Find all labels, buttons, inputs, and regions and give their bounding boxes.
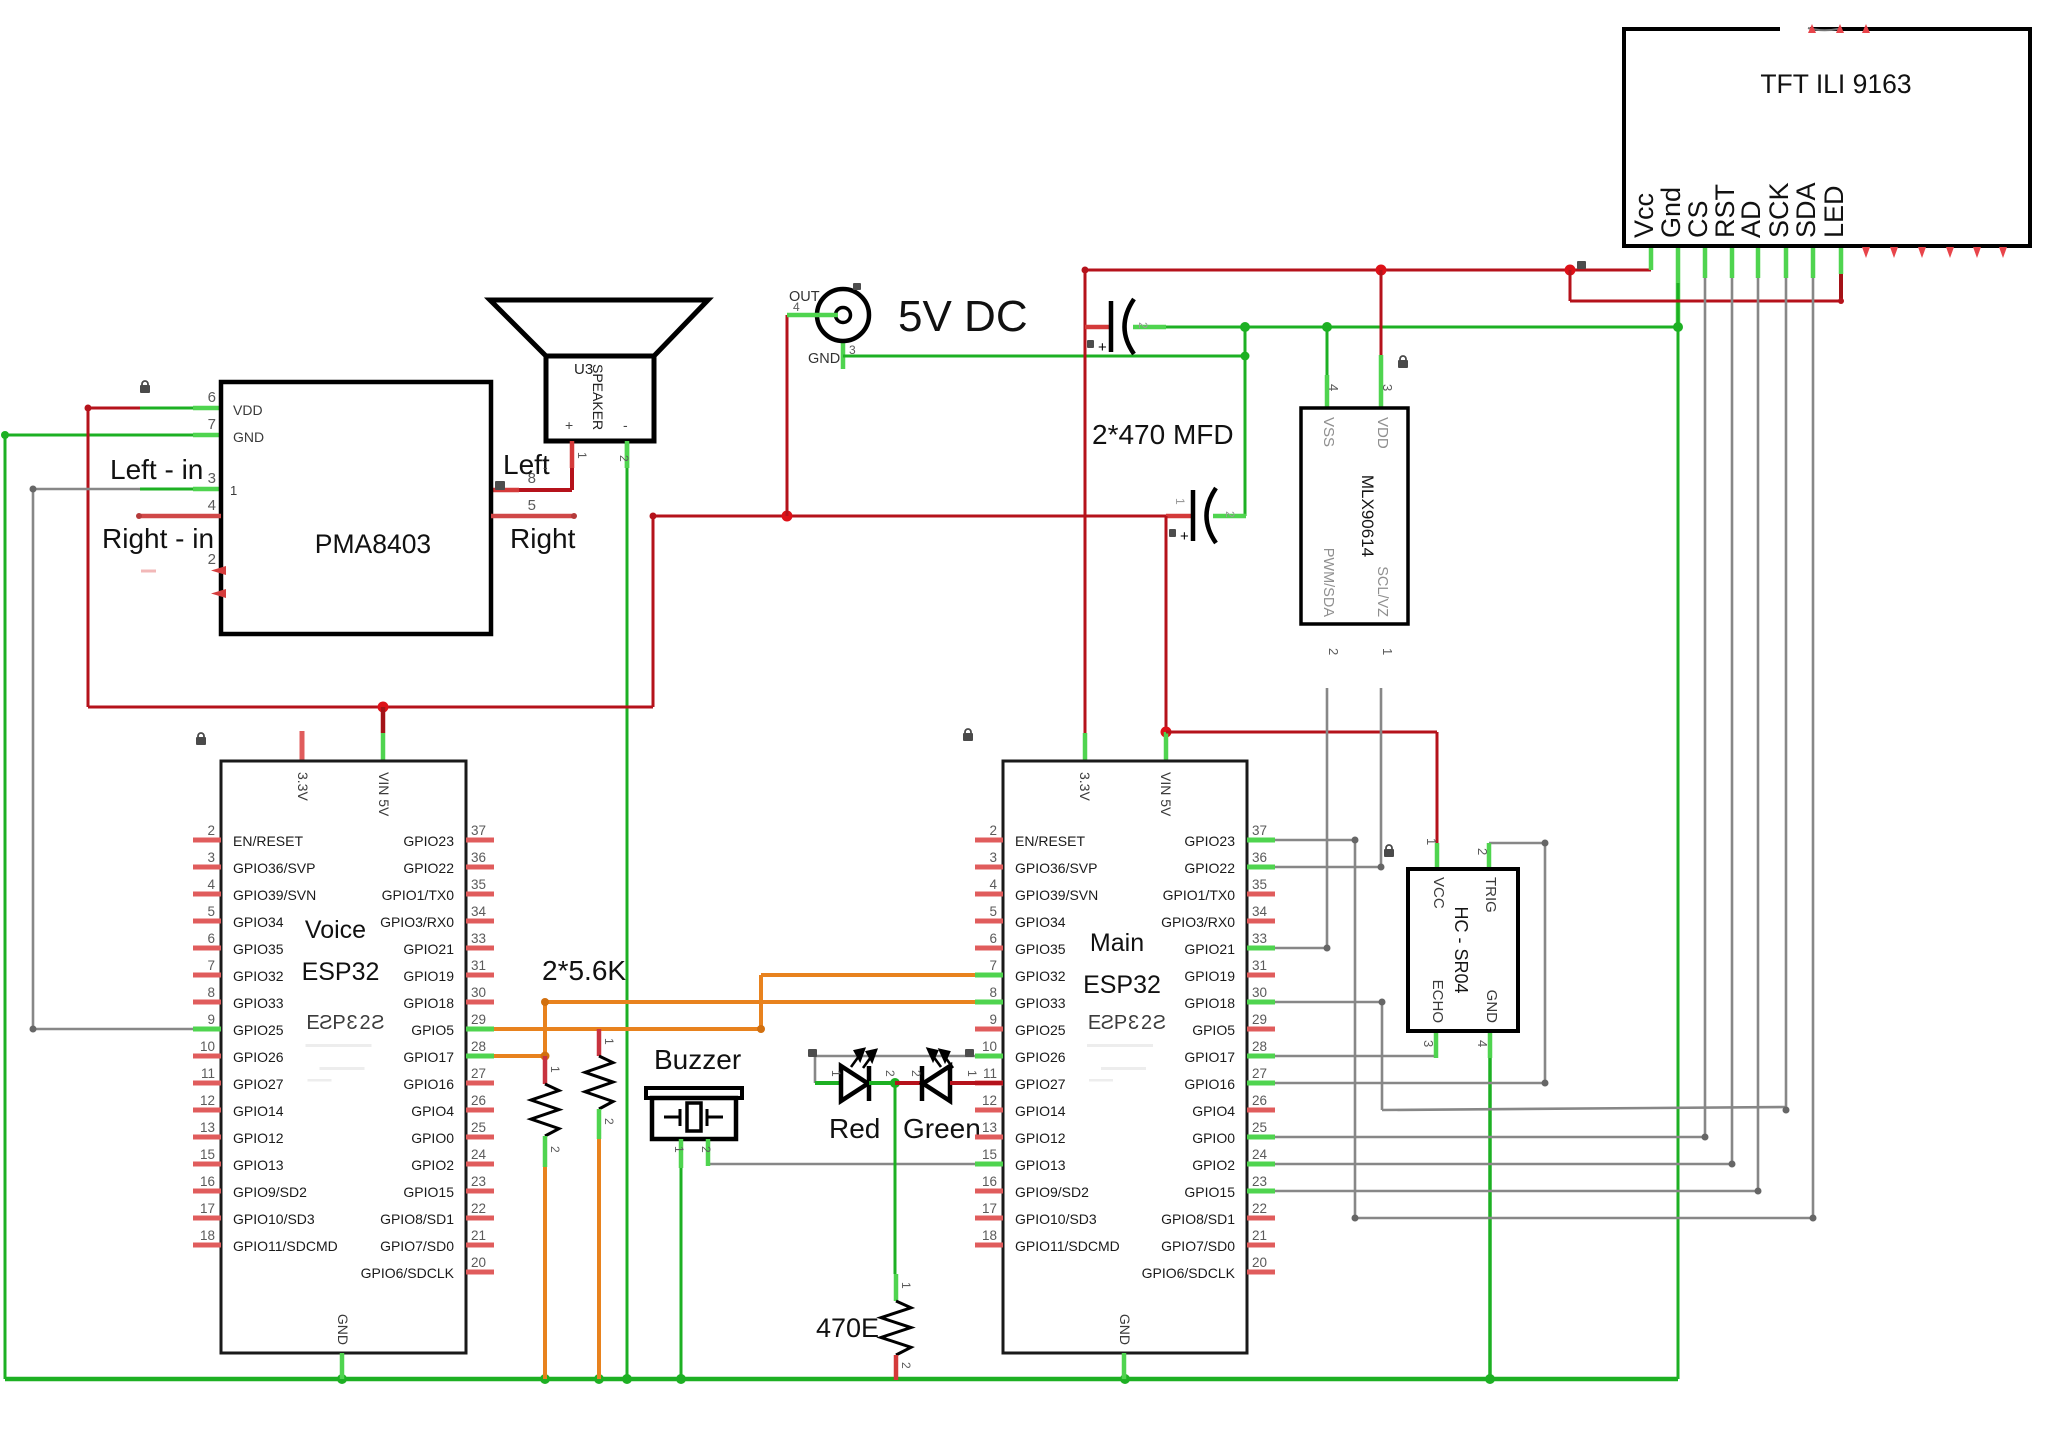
svg-text:GPIO32: GPIO32 <box>1015 968 1066 984</box>
svg-text:VSS: VSS <box>1320 417 1337 447</box>
wire: GND left vertical rail <box>4 435 7 1379</box>
Main ESP32 pin 6 GPIO35 <box>975 946 1003 951</box>
buzzer pin 1 stub <box>679 1139 684 1168</box>
svg-text:36: 36 <box>1252 850 1267 865</box>
svg-text:2: 2 <box>883 1070 897 1077</box>
svg-text:13: 13 <box>982 1120 997 1135</box>
svg-text:GPIO12: GPIO12 <box>1015 1130 1066 1146</box>
Main ESP32 pin 7 GPIO32 <box>975 973 1003 978</box>
wire: red jog to TFT LED <box>1569 270 1572 301</box>
svg-text:AD: AD <box>1736 200 1766 238</box>
svg-text:12: 12 <box>200 1093 215 1108</box>
svg-text:GPIO23: GPIO23 <box>1184 833 1235 849</box>
TFT top border gap artifact <box>1780 24 1810 33</box>
svg-text:ECHO: ECHO <box>1429 980 1446 1023</box>
Main ESP32 pin 15 GPIO13 <box>975 1162 1003 1167</box>
buzzer crystal symbol <box>664 1116 680 1119</box>
svg-text:GPIO36/SVP: GPIO36/SVP <box>1015 860 1097 876</box>
svg-text:+: + <box>1098 339 1107 356</box>
svg-text:2: 2 <box>1136 322 1150 329</box>
svg-text:GPIO39/SVN: GPIO39/SVN <box>1015 887 1098 903</box>
wire: red left vertical x88 <box>87 408 90 707</box>
svg-text:VIN 5V: VIN 5V <box>376 772 392 817</box>
wire: Main GPIO2 to TFT RST <box>1275 1163 1732 1166</box>
svg-text:2: 2 <box>1326 648 1341 655</box>
svg-text:HC - SR04: HC - SR04 <box>1451 906 1471 993</box>
svg-text:-: - <box>623 417 628 433</box>
Main ESP32 pin 25 GPIO0 <box>1247 1135 1275 1140</box>
PMA pin 5 Right-out dead-end <box>491 514 574 519</box>
svg-text:23: 23 <box>471 1174 486 1189</box>
Voice ESP32 pin 8 GPIO33 <box>193 1000 221 1005</box>
svg-text:Vcc: Vcc <box>1629 193 1659 238</box>
Main ESP32 pin 9 GPIO25 <box>975 1027 1003 1032</box>
Voice ESP32 pin 7 GPIO32 <box>193 973 221 978</box>
svg-text:1: 1 <box>899 1282 913 1289</box>
svg-text:GPIO18: GPIO18 <box>403 995 454 1011</box>
Voice ESP32 pin 29 GPIO5 <box>466 1027 494 1032</box>
svg-text:2: 2 <box>548 1146 562 1153</box>
svg-text:21: 21 <box>1252 1228 1267 1243</box>
svg-text:GPIO21: GPIO21 <box>403 941 454 957</box>
svg-text:23: 23 <box>1252 1174 1267 1189</box>
svg-text:TRIG: TRIG <box>1482 877 1499 913</box>
Voice ESP32 pin 3 GPIO36/SVP <box>193 865 221 870</box>
junction: Main VIN 5V <box>1161 727 1172 738</box>
svg-text:GPIO33: GPIO33 <box>233 995 284 1011</box>
svg-text:GPIO21: GPIO21 <box>1184 941 1235 957</box>
LED D1 Red: anode wire <box>815 1081 841 1085</box>
wire: DC jack GND stub <box>841 341 846 369</box>
svg-text:GPIO7/SD0: GPIO7/SD0 <box>380 1238 454 1254</box>
svg-text:CS: CS <box>1683 200 1713 238</box>
wire: R1 bottom to bus (orange) <box>543 1167 547 1379</box>
svg-text:2: 2 <box>699 1146 713 1153</box>
wire: HC-SR04 GND down to bus <box>1488 1031 1493 1058</box>
svg-text:GPIO9/SD2: GPIO9/SD2 <box>1015 1184 1089 1200</box>
wire: audio-in gray from PMA pin3 to Voice GPIO25 <box>33 488 140 491</box>
svg-text:GPIO16: GPIO16 <box>1184 1076 1235 1092</box>
svg-text:GPIO11/SDCMD: GPIO11/SDCMD <box>1015 1238 1120 1254</box>
svg-text:28: 28 <box>1252 1039 1267 1054</box>
svg-text:3: 3 <box>207 850 215 865</box>
svg-text:GPIO25: GPIO25 <box>1015 1022 1066 1038</box>
Main ESP32 pin 26 GPIO4 <box>1247 1108 1275 1113</box>
svg-text:S: S <box>1101 1012 1114 1034</box>
Voice ESP32 pin 36 GPIO22 <box>466 865 494 870</box>
Main ESP32 pin 22 GPIO8/SD1 <box>1247 1216 1275 1221</box>
junction: bus dots <box>337 1374 347 1384</box>
svg-text:E: E <box>1088 1012 1101 1034</box>
svg-text:25: 25 <box>471 1120 486 1135</box>
TFT ILI 9163 display box <box>1624 29 2030 246</box>
svg-text:ESP32: ESP32 <box>302 958 380 986</box>
junction: MLX VDD tap <box>1376 265 1387 276</box>
svg-text:4: 4 <box>1475 1040 1490 1047</box>
svg-text:SCL/VZ: SCL/VZ <box>1374 566 1390 617</box>
svg-text:20: 20 <box>471 1255 486 1270</box>
resistor R3 470E (LED series) <box>894 1274 899 1301</box>
svg-text:GPIO18: GPIO18 <box>1184 995 1235 1011</box>
wire: red to HC-SR04 VCC <box>1166 731 1437 734</box>
svg-text:27: 27 <box>1252 1066 1267 1081</box>
svg-text:16: 16 <box>982 1174 997 1189</box>
wire: TFT Gnd vertical down to bus <box>1676 246 1681 327</box>
svg-text:GPIO14: GPIO14 <box>233 1103 284 1119</box>
svg-text:22: 22 <box>1252 1201 1267 1216</box>
junction: jack OUT drop <box>782 511 793 522</box>
svg-text:1: 1 <box>829 1070 843 1077</box>
svg-text:Right - in: Right - in <box>102 523 214 554</box>
svg-text:Red: Red <box>829 1113 880 1144</box>
jack OUT stub <box>787 313 838 318</box>
wire: PMA VDD red feed from left rail <box>88 407 140 410</box>
wire: red vertical x1085 to Main 3.3V <box>1084 270 1087 733</box>
Voice ESP32 pin 30 GPIO18 <box>466 1000 494 1005</box>
Voice ESP32 pin 37 GPIO23 <box>466 838 494 843</box>
capacitor C2 negative stub <box>1213 514 1246 519</box>
svg-text:29: 29 <box>471 1012 486 1027</box>
svg-text:31: 31 <box>1252 958 1267 973</box>
Main ESP32 pin 30 GPIO18 <box>1247 1000 1275 1005</box>
svg-text:GND: GND <box>1483 990 1500 1024</box>
svg-text:VDD: VDD <box>1374 417 1391 449</box>
HC-SR04 VCC stub <box>1435 843 1440 869</box>
Voice ESP32 pin 11 GPIO27 <box>193 1081 221 1086</box>
svg-text:33: 33 <box>1252 931 1267 946</box>
wire: HC-SR04 TRIG to Main GPIO16 <box>1489 842 1545 845</box>
Main ESP32 pin 20 GPIO6/SDCLK <box>1247 1270 1275 1275</box>
capacitor C2 positive stub <box>1166 514 1193 519</box>
svg-text:GPIO22: GPIO22 <box>1184 860 1235 876</box>
svg-text:VIN 5V: VIN 5V <box>1158 772 1174 817</box>
svg-text:GPIO5: GPIO5 <box>1192 1022 1235 1038</box>
svg-text:18: 18 <box>982 1228 997 1243</box>
svg-text:3: 3 <box>1380 384 1395 391</box>
Voice ESP32 pin 18 GPIO11/SDCMD <box>193 1243 221 1248</box>
wire: Green LED anode to Main GPIO27 (red) <box>950 1081 1003 1085</box>
svg-text:15: 15 <box>200 1147 215 1162</box>
wire: Voice GPIO17 to Main GPIO33 (orange) <box>494 1054 545 1058</box>
svg-text:TFT ILI 9163: TFT ILI 9163 <box>1760 69 1911 99</box>
Main ESP32 pin 13 GPIO12 <box>975 1135 1003 1140</box>
svg-text:27: 27 <box>471 1066 486 1081</box>
svg-text:GPIO19: GPIO19 <box>1184 968 1235 984</box>
svg-text:6: 6 <box>207 931 215 946</box>
PMA pin 8 stub <box>491 488 519 493</box>
HC-SR04 TRIG stub <box>1487 843 1492 869</box>
svg-text:GPIO22: GPIO22 <box>403 860 454 876</box>
wire: Main GPIO0 to TFT CS <box>1275 1136 1705 1139</box>
PMA8403 amplifier box <box>221 382 491 634</box>
MLX90614 IR sensor box <box>1301 408 1408 624</box>
svg-text:4: 4 <box>1326 384 1341 391</box>
svg-text:4: 4 <box>793 300 800 314</box>
svg-text:GPIO23: GPIO23 <box>403 833 454 849</box>
svg-text:GPIO7/SD0: GPIO7/SD0 <box>1161 1238 1235 1254</box>
Voice ESP32 pin 4 GPIO39/SVN <box>193 892 221 897</box>
svg-text:1: 1 <box>230 483 237 498</box>
svg-text:GPIO12: GPIO12 <box>233 1130 284 1146</box>
Voice ESP32 pin 2 EN/RESET <box>193 838 221 843</box>
buzzer body <box>646 1088 742 1098</box>
svg-text:36: 36 <box>471 850 486 865</box>
wire: Voice VIN stub <box>381 707 386 733</box>
svg-text:37: 37 <box>1252 823 1267 838</box>
Main ESP32 pin 36 GPIO22 <box>1247 865 1275 870</box>
wire: junction to Green LED cathode (red) <box>895 1081 922 1085</box>
Main ESP32 pin 23 GPIO15 <box>1247 1189 1275 1194</box>
svg-text:P: P <box>1114 1012 1127 1034</box>
svg-text:2: 2 <box>602 1118 616 1125</box>
svg-text:GPIO8/SD1: GPIO8/SD1 <box>1161 1211 1235 1227</box>
svg-text:GPIO3/RX0: GPIO3/RX0 <box>1161 914 1235 930</box>
svg-text:25: 25 <box>1252 1120 1267 1135</box>
svg-text:GPIO39/SVN: GPIO39/SVN <box>233 887 316 903</box>
TFT unconnected pin marks bottom <box>1862 247 1870 258</box>
LED D1 Red: triangle and cathode bar <box>841 1066 868 1101</box>
svg-text:17: 17 <box>200 1201 215 1216</box>
Voice ESP32 pin 22 GPIO8/SD1 <box>466 1216 494 1221</box>
svg-text:GPIO0: GPIO0 <box>1192 1130 1235 1146</box>
svg-text:470E: 470E <box>816 1313 879 1343</box>
junction: green y327 x1678 (TFT Gnd) <box>1673 322 1683 332</box>
Main ESP32 pin 27 GPIO16 <box>1247 1081 1275 1086</box>
svg-text:PMA8403: PMA8403 <box>315 529 431 559</box>
wire: Main GPIO18 to TFT SCK <box>1275 1001 1382 1004</box>
svg-text:1: 1 <box>602 1038 616 1045</box>
svg-text:GPIO35: GPIO35 <box>1015 941 1066 957</box>
svg-text:Left - in: Left - in <box>110 454 203 485</box>
svg-text:GPIO2: GPIO2 <box>1192 1157 1235 1173</box>
PMA pins 2/1 tiny stubs <box>211 566 226 575</box>
svg-text:GPIO6/SDCLK: GPIO6/SDCLK <box>1142 1265 1236 1281</box>
svg-text:GPIO15: GPIO15 <box>1184 1184 1235 1200</box>
svg-text:16: 16 <box>200 1174 215 1189</box>
Main ESP32 pin 10 GPIO26 <box>975 1054 1003 1059</box>
Voice ESP32 pin 13 GPIO12 <box>193 1135 221 1140</box>
svg-text:GPIO26: GPIO26 <box>1015 1049 1066 1065</box>
svg-text:GPIO25: GPIO25 <box>233 1022 284 1038</box>
wire: junction down to 470E <box>894 1083 897 1274</box>
svg-text:8: 8 <box>989 985 997 1000</box>
svg-text:34: 34 <box>471 904 487 919</box>
svg-text:8: 8 <box>207 985 215 1000</box>
Voice ESP32 pin 9 GPIO25 <box>193 1027 221 1032</box>
LED D2 Green emission arrows <box>928 1049 953 1068</box>
svg-text:3.3V: 3.3V <box>1077 772 1093 801</box>
svg-text:GPIO27: GPIO27 <box>1015 1076 1066 1092</box>
svg-text:Right: Right <box>510 523 576 554</box>
svg-text:GPIO10/SD3: GPIO10/SD3 <box>233 1211 315 1227</box>
Main ESP32 pin 12 GPIO14 <box>975 1108 1003 1113</box>
wire: red top line y270 <box>1085 269 1651 272</box>
svg-text:+: + <box>1180 528 1189 545</box>
Voice ESP32 pin 35 GPIO1/TX0 <box>466 892 494 897</box>
svg-text:3: 3 <box>989 850 997 865</box>
wire: green cap riser x1245 <box>1244 327 1247 516</box>
svg-text:2: 2 <box>899 1362 913 1369</box>
svg-text:29: 29 <box>1252 1012 1267 1027</box>
svg-text:2*5.6K: 2*5.6K <box>542 955 626 986</box>
svg-text:E: E <box>306 1012 319 1034</box>
Main ESP32 pin 11 GPIO27 <box>975 1081 1003 1086</box>
svg-text:GPIO13: GPIO13 <box>1015 1157 1066 1173</box>
svg-text:3.3V: 3.3V <box>295 772 311 801</box>
wire: R2 bottom to bus (orange) <box>597 1139 601 1379</box>
wire: buzzer pin2 to Main GPIO13 <box>708 1163 975 1166</box>
svg-text:1: 1 <box>1380 648 1395 655</box>
svg-text:S: S <box>319 1012 332 1034</box>
svg-text:37: 37 <box>471 823 486 838</box>
Voice ESP32 pin 5 GPIO34 <box>193 919 221 924</box>
svg-text:Voice: Voice <box>305 916 366 944</box>
wire: Main GPIO23 to TFT SDA <box>1275 839 1355 842</box>
svg-text:+: + <box>565 417 573 433</box>
svg-text:GND: GND <box>1117 1314 1133 1345</box>
Voice ESP32 pin 16 GPIO9/SD2 <box>193 1189 221 1194</box>
svg-text:31: 31 <box>471 958 486 973</box>
Main ESP32 pin 24 GPIO2 <box>1247 1162 1275 1167</box>
svg-text:6: 6 <box>208 389 216 406</box>
svg-text:4: 4 <box>207 877 215 892</box>
svg-text:3: 3 <box>208 470 216 487</box>
svg-text:GPIO13: GPIO13 <box>233 1157 284 1173</box>
svg-text:SCK: SCK <box>1764 182 1794 238</box>
speaker + lead (red to PMA pin 8) <box>570 441 575 468</box>
svg-text:GPIO35: GPIO35 <box>233 941 284 957</box>
svg-text:GPIO0: GPIO0 <box>411 1130 454 1146</box>
svg-text:9: 9 <box>989 1012 997 1027</box>
Main ESP32 pin 31 GPIO19 <box>1247 973 1275 978</box>
Voice ESP32 pin 21 GPIO7/SD0 <box>466 1243 494 1248</box>
svg-text:VDD: VDD <box>233 402 263 418</box>
svg-text:2*470 MFD: 2*470 MFD <box>1092 419 1234 450</box>
capacitor C2 470MFD plates <box>1191 490 1196 541</box>
svg-text:22: 22 <box>471 1201 486 1216</box>
svg-text:3: 3 <box>849 343 856 357</box>
Voice ESP32 pin 27 GPIO16 <box>466 1081 494 1086</box>
wire: Voice GPIO5 to Main GPIO32 (orange) <box>494 1027 761 1031</box>
TFT unconnected pin marks top <box>1808 24 1816 33</box>
svg-text:VCC: VCC <box>1430 877 1447 909</box>
Voice ESP32 pin 6 GPIO35 <box>193 946 221 951</box>
wire: red vertical x653 <box>652 516 655 707</box>
svg-text:26: 26 <box>471 1093 486 1108</box>
Voice ESP32 pin 25 GPIO0 <box>466 1135 494 1140</box>
Voice ESP32 3.3V red stub (unconnected) <box>300 731 305 761</box>
LED D1 Red emission arrows <box>851 1049 876 1068</box>
capacitor C1 470MFD plates <box>1109 301 1114 352</box>
Voice ESP32 pin 31 GPIO19 <box>466 973 494 978</box>
svg-text:3: 3 <box>346 1012 357 1034</box>
svg-text:GND: GND <box>233 429 264 445</box>
Main ESP32 pin 21 GPIO7/SD0 <box>1247 1243 1275 1248</box>
Voice ESP32 pin 23 GPIO15 <box>466 1189 494 1194</box>
svg-text:LED: LED <box>1819 185 1849 238</box>
svg-text:-: - <box>543 459 548 475</box>
LED D2 Green: cathode bar and triangle <box>920 1066 925 1101</box>
svg-text:GPIO4: GPIO4 <box>1192 1103 1235 1119</box>
svg-text:2: 2 <box>1223 511 1237 518</box>
junction: TFT Vcc/LED tap <box>1565 265 1576 276</box>
svg-text:GPIO8/SD1: GPIO8/SD1 <box>380 1211 454 1227</box>
svg-text:35: 35 <box>471 877 486 892</box>
Voice ESP32 module box <box>221 761 466 1353</box>
svg-text:GPIO16: GPIO16 <box>403 1076 454 1092</box>
svg-text:Gnd: Gnd <box>1656 187 1686 238</box>
Voice ESP32 pin 12 GPIO14 <box>193 1108 221 1113</box>
svg-text:EN/RESET: EN/RESET <box>1015 833 1085 849</box>
svg-text:1: 1 <box>1424 838 1439 845</box>
svg-text:2: 2 <box>909 1070 923 1077</box>
Main ESP32 GPIO27 red stub wire overlay <box>975 1081 1003 1085</box>
Main ESP32 pin 28 GPIO17 <box>1247 1054 1275 1059</box>
svg-text:GPIO34: GPIO34 <box>233 914 284 930</box>
svg-text:2: 2 <box>617 455 631 462</box>
svg-text:GPIO6/SDCLK: GPIO6/SDCLK <box>361 1265 455 1281</box>
capacitor C1 negative stub <box>1133 325 1166 330</box>
svg-text:1: 1 <box>575 452 589 459</box>
Main ESP32 pin 3 GPIO36/SVP <box>975 865 1003 870</box>
svg-text:35: 35 <box>1252 877 1267 892</box>
wire: MLX SCL/VZ to Main GPIO22 <box>1380 688 1383 867</box>
svg-text:6: 6 <box>989 931 997 946</box>
svg-text:GPIO36/SVP: GPIO36/SVP <box>233 860 315 876</box>
5V DC barrel jack <box>817 289 869 341</box>
Main ESP32 pin 35 GPIO1/TX0 <box>1247 892 1275 897</box>
svg-text:GPIO17: GPIO17 <box>403 1049 454 1065</box>
svg-text:MLX90614: MLX90614 <box>1358 475 1377 557</box>
svg-text:34: 34 <box>1252 904 1268 919</box>
svg-text:3: 3 <box>1421 1040 1436 1047</box>
Voice ESP32 pin 26 GPIO4 <box>466 1108 494 1113</box>
junction: green y327 x1245 <box>1240 322 1250 332</box>
speaker U3 body <box>546 356 654 441</box>
Voice ESP32 pin 10 GPIO26 <box>193 1054 221 1059</box>
wire: LED rail from Main GPIO26 <box>815 1055 975 1058</box>
svg-text:SDA: SDA <box>1791 182 1821 238</box>
svg-text:GPIO2: GPIO2 <box>411 1157 454 1173</box>
wire: MLX90614 VSS feed <box>1326 327 1329 375</box>
svg-text:2: 2 <box>989 823 997 838</box>
svg-text:GPIO11/SDCMD: GPIO11/SDCMD <box>233 1238 338 1254</box>
svg-text:1: 1 <box>672 1146 686 1153</box>
svg-text:GPIO32: GPIO32 <box>233 968 284 984</box>
svg-text:24: 24 <box>471 1147 487 1162</box>
svg-text:4: 4 <box>208 497 216 514</box>
wire: jack OUT vertical <box>786 315 789 516</box>
Main ESP32 pin 8 GPIO33 <box>975 1000 1003 1005</box>
resistor R1 5.6K (GPIO17 pulldown) <box>543 1056 548 1084</box>
Main ESP32 pin 17 GPIO10/SD3 <box>975 1216 1003 1221</box>
svg-text:SPEAKER: SPEAKER <box>590 364 606 430</box>
svg-text:GND: GND <box>808 351 840 367</box>
junction: Voice VIN 5V tap <box>378 702 389 713</box>
wire: red horizontal y516 (jack OUT rail) <box>652 515 1166 518</box>
svg-text:4: 4 <box>989 877 997 892</box>
svg-text:10: 10 <box>200 1039 215 1054</box>
capacitor C1 positive stub <box>1085 325 1111 330</box>
Voice ESP32 pin 33 GPIO21 <box>466 946 494 951</box>
svg-text:P: P <box>332 1012 345 1034</box>
Voice ESP32 pin 20 GPIO6/SDCLK <box>466 1270 494 1275</box>
wire: speaker negative lead down to bus <box>625 441 630 468</box>
junction: LED cathodes to 470E <box>890 1078 900 1088</box>
Main ESP32 module box <box>1003 761 1247 1353</box>
svg-text:12: 12 <box>982 1093 997 1108</box>
Main ESP32 pin 37 GPIO23 <box>1247 838 1275 843</box>
